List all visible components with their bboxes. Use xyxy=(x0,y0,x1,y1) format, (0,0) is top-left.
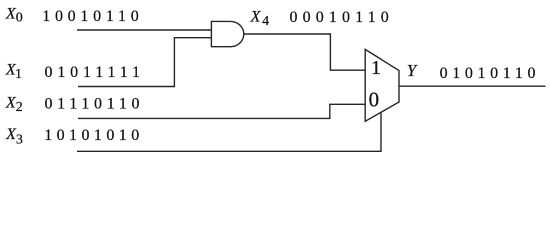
svg-text:X: X xyxy=(250,8,262,25)
svg-text:1: 1 xyxy=(15,67,22,82)
svg-text:3: 3 xyxy=(16,132,23,147)
svg-text:0: 0 xyxy=(369,88,380,112)
svg-text:Y: Y xyxy=(407,61,418,80)
svg-text:4: 4 xyxy=(262,14,269,29)
svg-text:0: 0 xyxy=(16,11,23,26)
svg-text:1: 1 xyxy=(371,57,381,79)
svg-text:2: 2 xyxy=(16,100,23,115)
